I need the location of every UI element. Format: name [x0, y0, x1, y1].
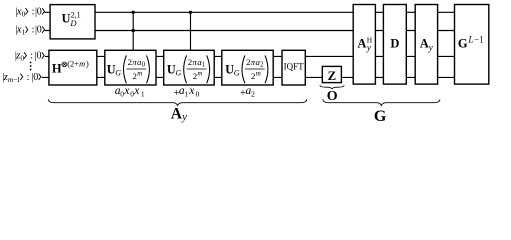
box U_G(2pi a1/2^m) U4 — [164, 50, 215, 85]
svg-text:G: G — [458, 36, 468, 50]
svg-text::: : — [32, 6, 35, 17]
svg-text:A: A — [357, 37, 366, 51]
svg-text:H: H — [52, 62, 62, 76]
svg-text::: : — [27, 72, 30, 83]
svg-text:U: U — [62, 12, 71, 26]
svg-text:x: x — [188, 85, 195, 97]
svg-text:2: 2 — [251, 90, 255, 99]
control dot x0 col1 — [132, 11, 135, 14]
svg-text:): ) — [86, 60, 89, 69]
svg-text:G: G — [115, 68, 121, 77]
wire x0 (w1) — [45, 11, 455, 13]
svg-text:D: D — [390, 37, 399, 51]
svg-text:0: 0 — [142, 62, 146, 69]
svg-text:m: m — [79, 60, 85, 69]
box D U9 — [383, 5, 406, 85]
box Ay^H U8 — [353, 5, 375, 85]
svg-text:m: m — [137, 70, 142, 78]
box H^{otimes(2+m)} U2 — [49, 50, 97, 85]
svg-text:0: 0 — [196, 90, 200, 99]
svg-text:IQFT: IQFT — [284, 62, 305, 72]
svg-text::: : — [30, 51, 33, 62]
svg-text:L: L — [467, 35, 473, 45]
svg-text:A: A — [420, 37, 429, 51]
underbrace G group — [323, 99, 440, 105]
svg-text:y: y — [181, 112, 187, 123]
svg-text:0: 0 — [37, 6, 42, 17]
svg-text:m: m — [256, 70, 261, 78]
svg-text:O: O — [327, 89, 338, 104]
svg-text:1: 1 — [22, 28, 26, 37]
svg-text:D: D — [69, 18, 77, 28]
svg-text:2: 2 — [260, 62, 264, 69]
svg-text:G: G — [176, 68, 182, 77]
box U_G(2pi a2/2^m) U5 — [222, 50, 273, 85]
svg-text:1: 1 — [17, 75, 21, 84]
control dot x0 col2 — [189, 11, 192, 14]
svg-text:G: G — [234, 68, 240, 77]
box U_G(2pi a0/2^m) U3 — [105, 50, 156, 85]
svg-text:0: 0 — [22, 9, 26, 18]
underbrace O — [320, 85, 344, 89]
svg-text:m: m — [197, 70, 202, 78]
svg-text:x: x — [133, 85, 140, 97]
svg-text:G: G — [374, 108, 387, 125]
box G^{L-1} U11 — [455, 5, 489, 85]
svg-text:1: 1 — [141, 90, 145, 99]
svg-text:y: y — [366, 42, 371, 52]
svg-text:−1: −1 — [474, 35, 484, 45]
wire zm-1 (w4) — [42, 76, 455, 78]
box U_D^{2,1} U1 — [50, 5, 95, 39]
svg-text:0: 0 — [33, 72, 38, 83]
svg-text:0: 0 — [37, 25, 42, 36]
svg-text:Z: Z — [328, 69, 337, 83]
box Ay U10 — [415, 5, 437, 85]
control line column 1 — [132, 12, 134, 60]
svg-text:1: 1 — [185, 90, 189, 99]
svg-text:0: 0 — [37, 51, 42, 62]
svg-text:0: 0 — [20, 54, 24, 63]
box IQFT U6 — [282, 50, 305, 85]
box Z U7 — [322, 66, 341, 82]
wire z0 (w3) — [45, 55, 455, 57]
svg-text:(2+: (2+ — [67, 60, 79, 69]
wire x1 (w2) — [45, 30, 455, 32]
vdots between z rows — [30, 62, 32, 64]
control line column 2 — [190, 12, 192, 60]
control dot x1 col1 — [132, 29, 135, 32]
svg-text:y: y — [428, 42, 433, 52]
svg-text:A: A — [171, 106, 183, 123]
svg-text:1: 1 — [202, 62, 205, 69]
underbrace A_y group — [48, 99, 307, 105]
svg-text::: : — [32, 25, 35, 36]
